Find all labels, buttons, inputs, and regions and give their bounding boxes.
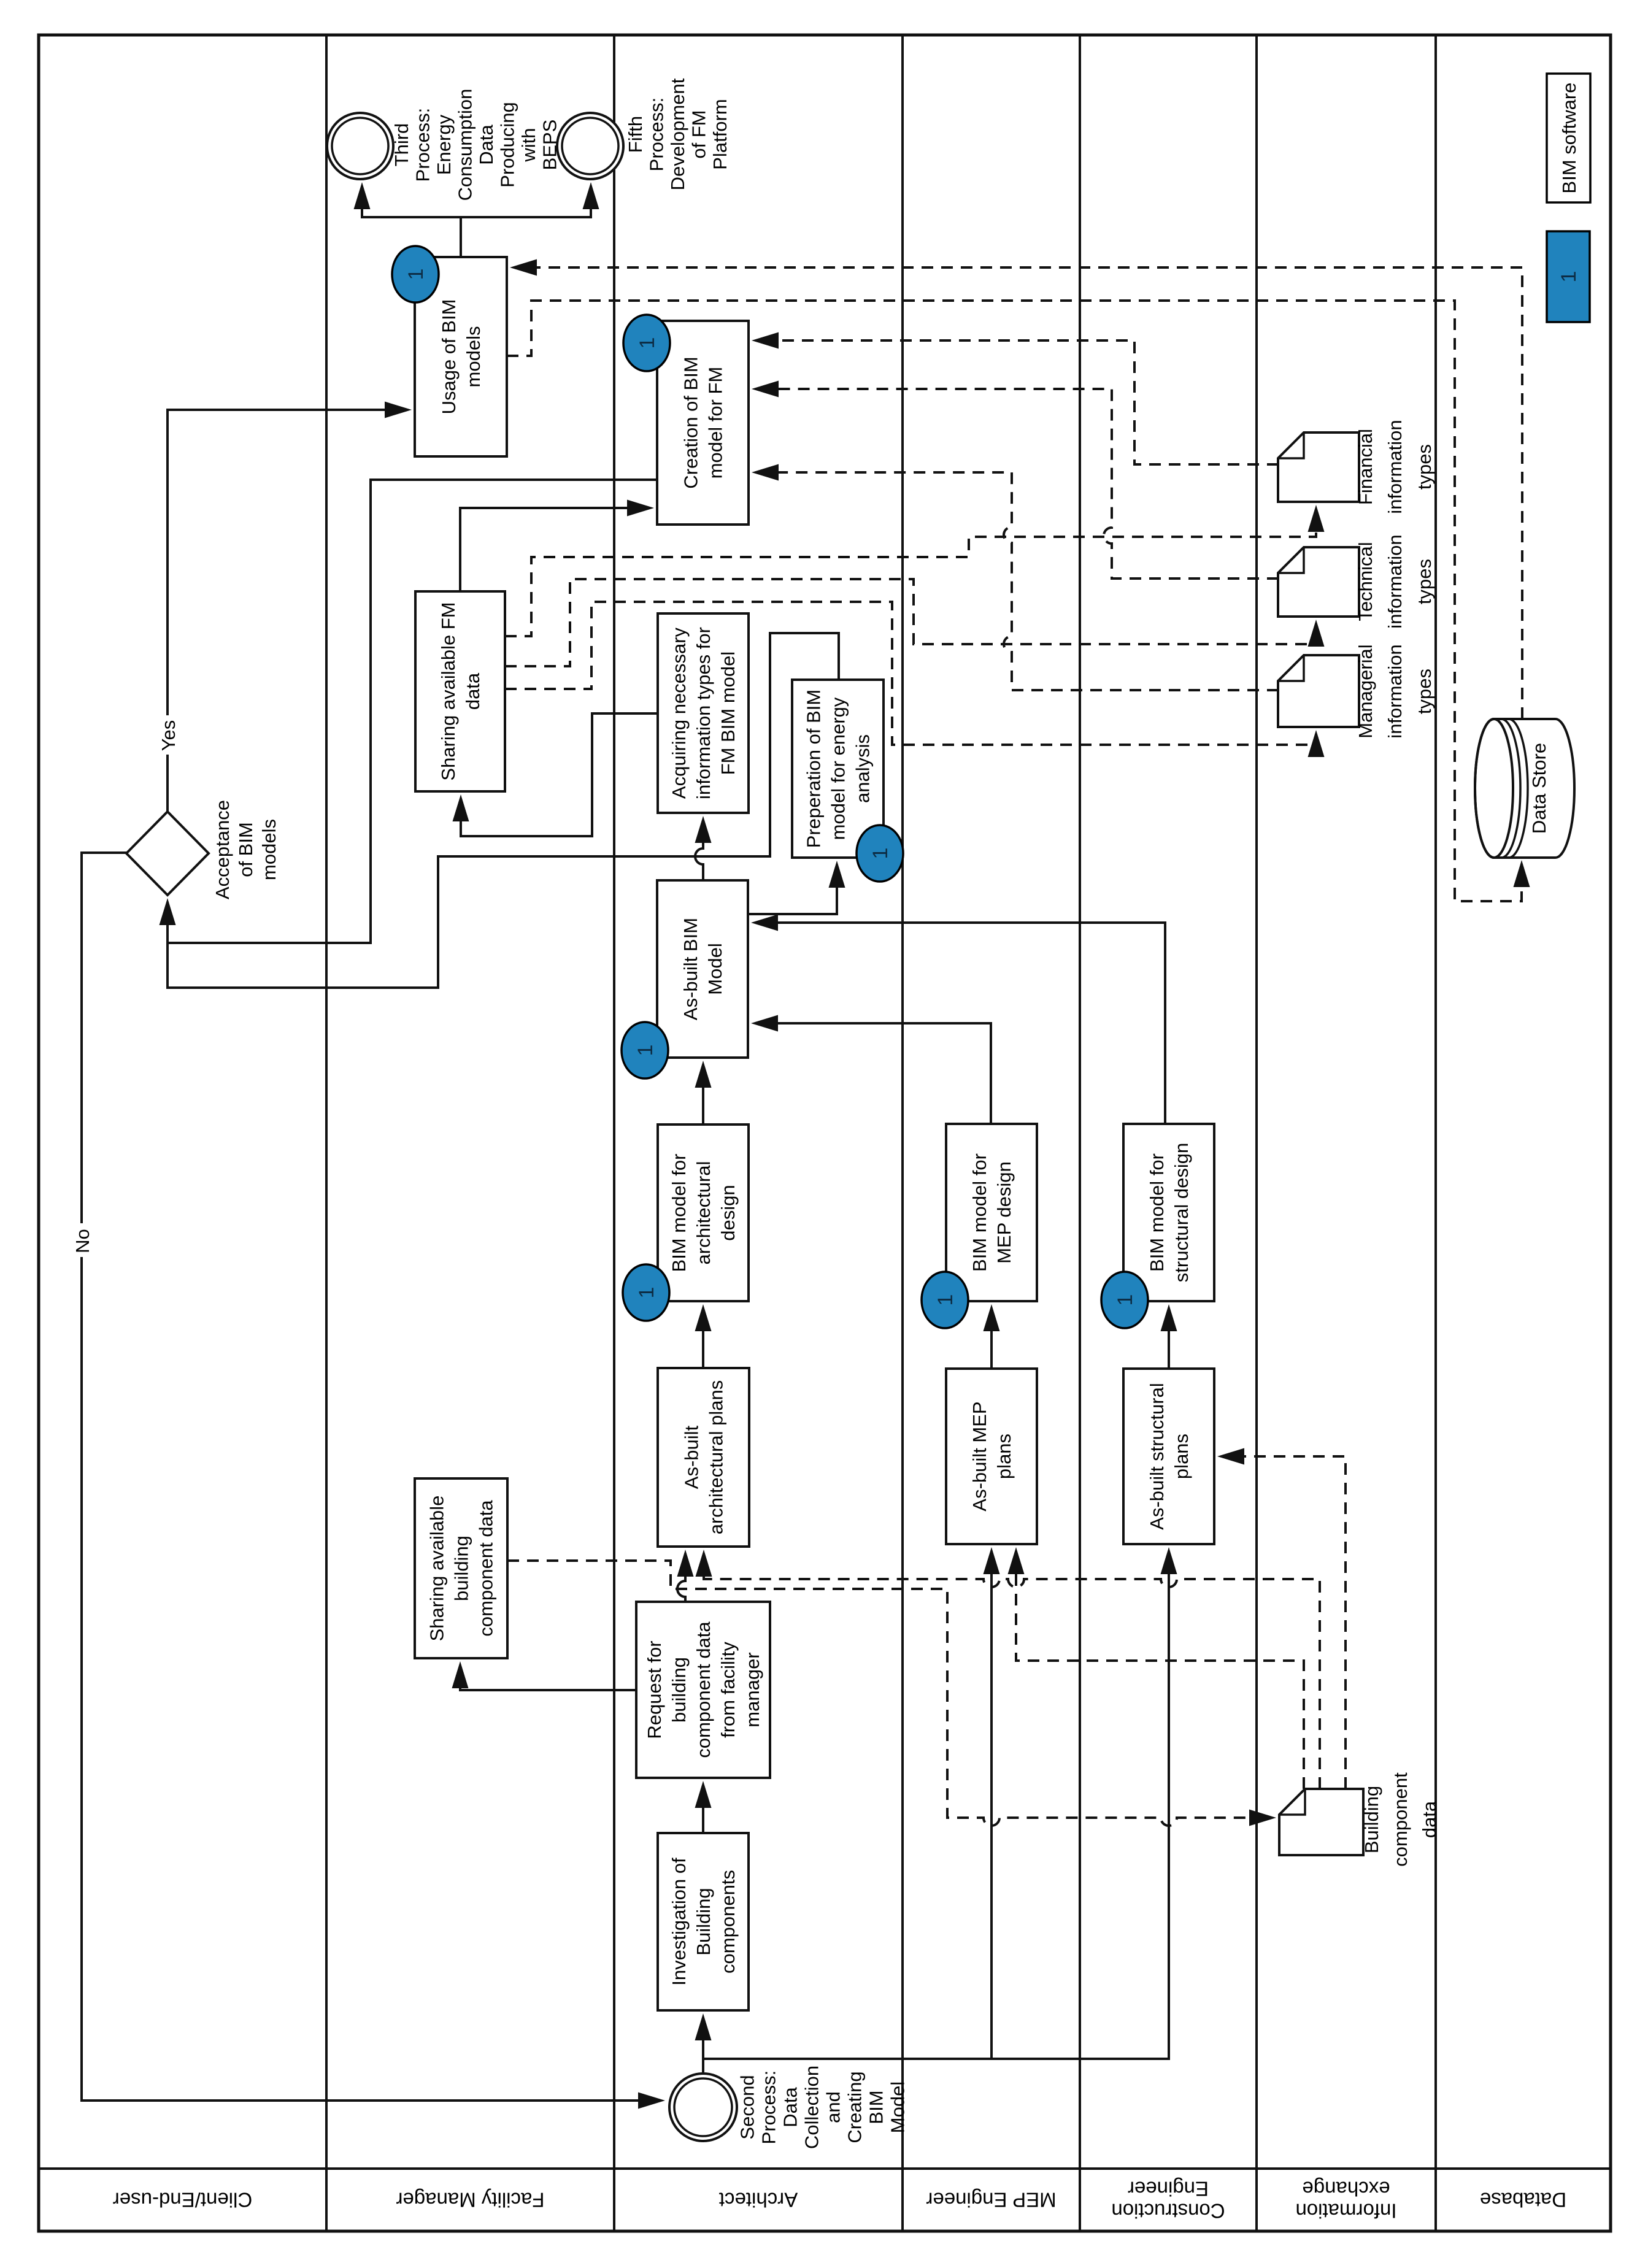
svg-text:types: types	[1414, 669, 1435, 714]
svg-text:architectural: architectural	[693, 1161, 714, 1265]
svg-text:model for FM: model for FM	[704, 367, 726, 479]
svg-text:information: information	[1384, 644, 1406, 738]
svg-text:structural design: structural design	[1171, 1143, 1192, 1282]
svg-text:1: 1	[1114, 1294, 1137, 1306]
svg-text:Acquiring necessary: Acquiring necessary	[668, 627, 690, 799]
svg-text:Investigation of: Investigation of	[668, 1858, 690, 1986]
svg-text:Fifth: Fifth	[625, 116, 646, 153]
svg-text:Building: Building	[693, 1888, 714, 1955]
svg-text:component: component	[1390, 1772, 1411, 1867]
svg-text:Sharing available: Sharing available	[426, 1496, 447, 1642]
svg-text:Collection: Collection	[801, 2066, 822, 2149]
svg-text:of FM: of FM	[688, 110, 709, 158]
svg-text:component data: component data	[693, 1621, 714, 1758]
svg-text:Data: Data	[476, 125, 497, 165]
svg-text:1: 1	[1557, 271, 1581, 283]
svg-text:types: types	[1414, 559, 1435, 604]
svg-text:Request for: Request for	[644, 1640, 665, 1739]
svg-text:Architect: Architect	[719, 2188, 798, 2211]
svg-text:Creating: Creating	[844, 2071, 865, 2143]
svg-text:Sharing available FM: Sharing available FM	[437, 602, 459, 780]
svg-text:Model: Model	[704, 943, 726, 994]
svg-text:Database: Database	[1480, 2188, 1566, 2211]
svg-text:Building: Building	[1361, 1786, 1382, 1853]
svg-text:Data Store: Data Store	[1528, 743, 1550, 834]
svg-text:Technical: Technical	[1355, 542, 1376, 621]
svg-text:MEP design: MEP design	[993, 1161, 1015, 1264]
svg-text:architectural plans: architectural plans	[705, 1380, 726, 1535]
svg-text:Energy: Energy	[433, 114, 455, 175]
svg-text:BIM model for: BIM model for	[969, 1153, 990, 1272]
svg-text:models: models	[463, 326, 484, 388]
svg-text:MEP Engineer: MEP Engineer	[926, 2188, 1056, 2211]
svg-text:components: components	[717, 1870, 739, 1974]
svg-text:model for energy: model for energy	[827, 697, 849, 840]
svg-text:building: building	[668, 1657, 690, 1723]
svg-text:from facility: from facility	[717, 1642, 739, 1738]
svg-text:BIM software: BIM software	[1558, 83, 1580, 194]
svg-text:Client/End-user: Client/End-user	[113, 2188, 252, 2211]
svg-text:information types for: information types for	[693, 627, 714, 799]
svg-text:Managerial: Managerial	[1355, 644, 1376, 738]
svg-text:1: 1	[634, 1045, 657, 1056]
svg-text:Information: Information	[1295, 2200, 1396, 2223]
svg-text:Preperation of BIM: Preperation of BIM	[803, 690, 824, 848]
svg-text:Data: Data	[779, 2087, 801, 2128]
svg-text:BIM model for: BIM model for	[668, 1154, 690, 1272]
svg-text:Model: Model	[887, 2082, 908, 2133]
svg-text:Construction: Construction	[1111, 2200, 1225, 2223]
svg-text:Facility Manager: Facility Manager	[396, 2188, 544, 2211]
svg-text:Third: Third	[391, 123, 412, 167]
svg-text:1: 1	[404, 269, 428, 280]
svg-text:BIM model for: BIM model for	[1146, 1153, 1168, 1272]
svg-text:information: information	[1384, 420, 1406, 513]
svg-text:plans: plans	[993, 1434, 1015, 1479]
svg-text:of BIM: of BIM	[235, 822, 256, 877]
svg-text:Process:: Process:	[412, 108, 434, 182]
svg-text:design: design	[717, 1185, 739, 1240]
svg-text:As-built: As-built	[680, 1425, 702, 1489]
svg-text:As-built structural: As-built structural	[1146, 1383, 1168, 1529]
svg-text:data: data	[462, 672, 483, 710]
svg-text:BIM: BIM	[865, 2090, 887, 2124]
svg-text:Acceptance: Acceptance	[212, 800, 233, 899]
svg-text:plans: plans	[1171, 1434, 1192, 1479]
svg-text:1: 1	[869, 848, 892, 859]
svg-text:Process:: Process:	[645, 98, 667, 172]
svg-text:Producing: Producing	[497, 102, 518, 188]
svg-text:As-built BIM: As-built BIM	[680, 918, 701, 1020]
svg-text:component data: component data	[475, 1500, 496, 1637]
svg-text:with: with	[518, 128, 539, 162]
svg-text:building: building	[450, 1536, 472, 1601]
svg-text:Process:: Process:	[758, 2070, 779, 2145]
svg-text:and: and	[822, 2091, 844, 2123]
svg-text:Development: Development	[667, 78, 688, 190]
svg-text:1: 1	[635, 1287, 658, 1299]
svg-text:types: types	[1414, 444, 1435, 490]
svg-text:Creation of BIM: Creation of BIM	[680, 356, 701, 488]
svg-text:Financial: Financial	[1355, 429, 1376, 505]
svg-text:analysis: analysis	[852, 734, 873, 803]
svg-text:manager: manager	[742, 1652, 763, 1727]
svg-text:Yes: Yes	[158, 720, 179, 752]
svg-text:Usage of BIM: Usage of BIM	[438, 299, 460, 415]
svg-text:information: information	[1384, 534, 1406, 628]
svg-text:Second: Second	[736, 2075, 758, 2139]
svg-text:1: 1	[636, 337, 659, 349]
svg-text:As-built MEP: As-built MEP	[969, 1401, 990, 1511]
svg-text:FM BIM model: FM BIM model	[717, 652, 739, 775]
svg-text:Consumption: Consumption	[455, 89, 476, 201]
svg-text:Platform: Platform	[709, 99, 731, 169]
svg-text:1: 1	[934, 1294, 957, 1306]
svg-text:exchange: exchange	[1302, 2177, 1390, 2200]
svg-text:models: models	[258, 819, 280, 880]
svg-text:No: No	[72, 1229, 93, 1253]
svg-text:data: data	[1419, 1801, 1440, 1838]
svg-text:Engineer: Engineer	[1128, 2177, 1209, 2200]
